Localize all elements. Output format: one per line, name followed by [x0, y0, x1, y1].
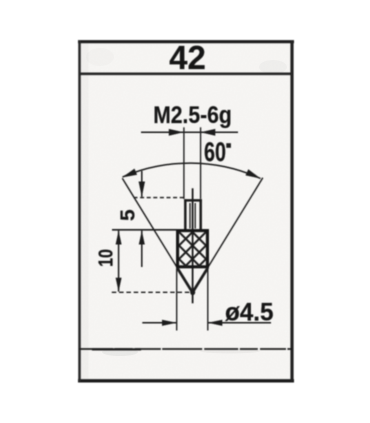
60 deg cone flank extension line right: [193, 178, 263, 293]
dimension M2.5-6g: right arrow: [201, 129, 216, 136]
dimension 60 deg: right arc arrow: [246, 169, 261, 178]
svg-text:42: 42: [169, 39, 206, 76]
dimension 60 deg: left arc arrow: [122, 169, 137, 178]
extension line left (diameter): [176, 269, 178, 331]
dimension 10: dashed bottom reference: [112, 291, 193, 293]
thread core line left: [189, 203, 191, 229]
degree mark: [226, 143, 231, 148]
cone tip blob: [190, 290, 195, 296]
dimension dia 4.5: right arrow: [208, 320, 222, 326]
dimension 10: dim line: [118, 231, 120, 292]
dimension 5: dashed top reference: [134, 197, 185, 199]
thread stud outline: [184, 199, 202, 202]
dimension dia 4.5: right dim line: [208, 322, 271, 324]
dimension dia 4.5: left dim line: [142, 322, 176, 324]
svg-text:10: 10: [95, 249, 117, 267]
extension line left (thread): [183, 127, 185, 199]
60 deg cone flank extension line left: [122, 178, 192, 292]
dimension 10: top arrow (up): [116, 231, 122, 245]
footer separator: [79, 348, 292, 350]
frame border: [78, 40, 294, 43]
title separator: [79, 73, 292, 76]
cone tip flanks: [177, 268, 192, 293]
frame interior tone: [81, 43, 292, 379]
dimension 5: lower dim line: [141, 231, 143, 267]
thread core line right: [194, 203, 196, 229]
knurl crosshatch: [139, 232, 246, 272]
dimension 5: upper arrow (down): [139, 182, 145, 198]
svg-text:M2.5-6g: M2.5-6g: [153, 102, 232, 129]
dimension 5: lower arrow (up): [139, 231, 145, 245]
centerline: [192, 188, 194, 303]
dimension M2.5-6g: left arrow: [169, 129, 184, 136]
extension line right (thread): [200, 127, 202, 199]
dimension dia 4.5: left arrow: [162, 320, 177, 326]
extension line right (diameter): [207, 269, 209, 331]
dimension 10: bottom arrow (down): [116, 278, 122, 292]
dimension 5: upper dim line: [141, 171, 143, 197]
svg-text:ø4.5: ø4.5: [225, 299, 273, 326]
dimension 60 deg: arc: [123, 163, 261, 178]
body top reference line (10 dim): [112, 229, 177, 231]
dimension M2.5-6g: dimension line: [141, 131, 238, 133]
svg-text:5: 5: [117, 209, 139, 221]
knurled body outline: [178, 231, 208, 267]
